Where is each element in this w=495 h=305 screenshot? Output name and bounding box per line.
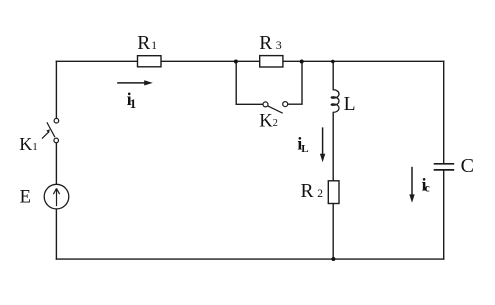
svg-text:R: R (137, 33, 150, 54)
svg-text:1: 1 (130, 96, 137, 111)
svg-text:L: L (344, 94, 356, 115)
svg-text:1: 1 (151, 40, 157, 52)
svg-text:R: R (301, 181, 314, 202)
svg-text:C: C (461, 155, 474, 177)
svg-text:1: 1 (32, 141, 38, 153)
svg-text:2: 2 (317, 188, 323, 200)
svg-text:K: K (19, 134, 32, 154)
svg-text:L: L (301, 143, 308, 155)
svg-text:R: R (259, 33, 272, 54)
svg-text:3: 3 (276, 38, 282, 52)
svg-text:E: E (20, 188, 31, 208)
svg-text:K: K (259, 111, 273, 131)
svg-text:c: c (425, 183, 430, 195)
svg-text:2: 2 (273, 118, 278, 129)
